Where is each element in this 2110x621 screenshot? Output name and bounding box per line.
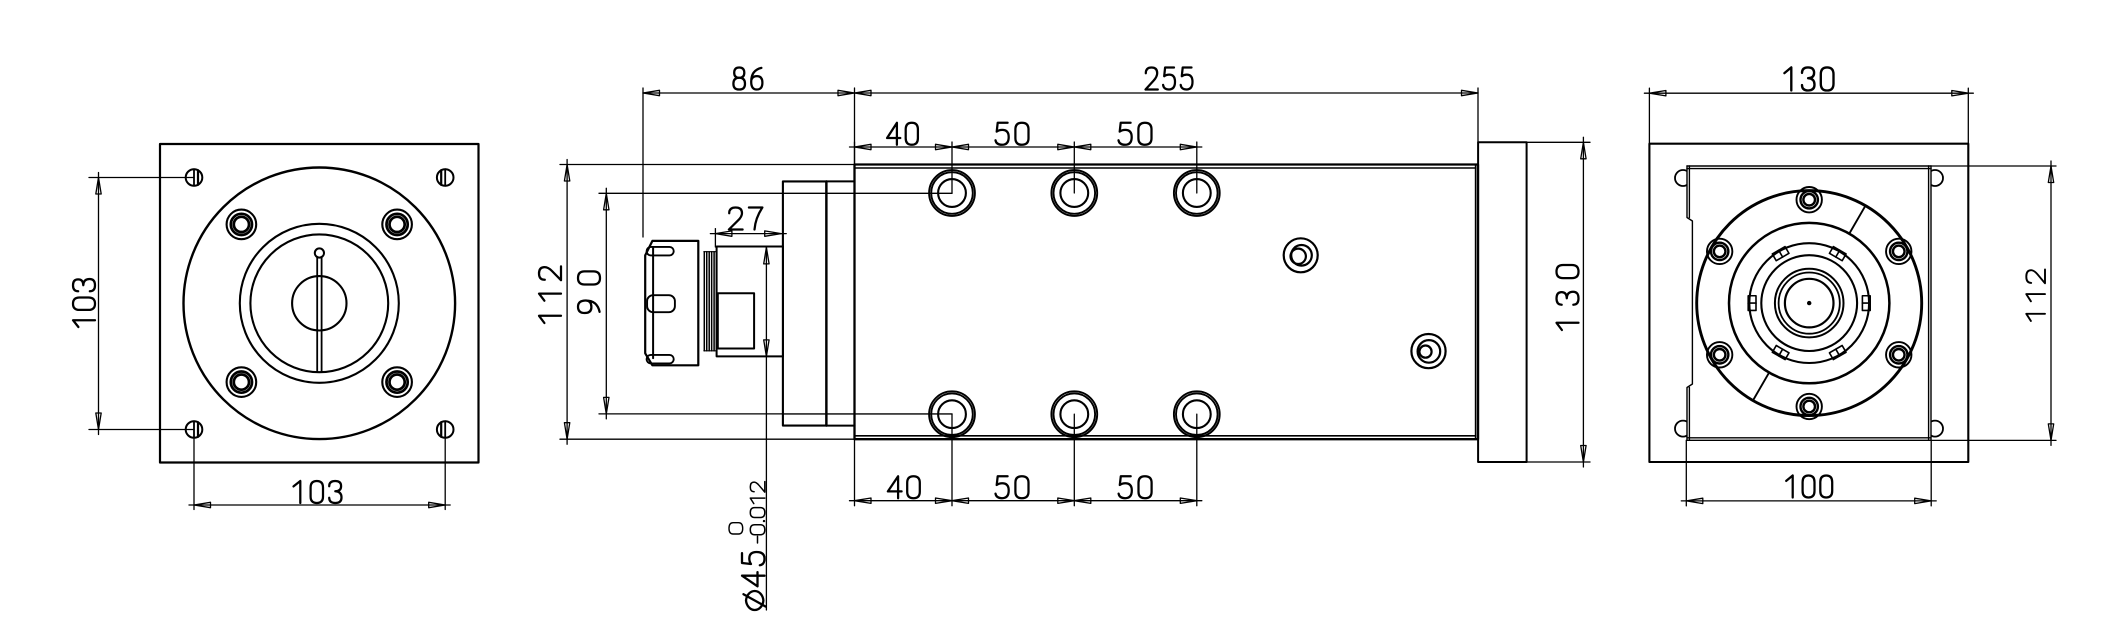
view1 recess ring outer circle xyxy=(240,224,399,383)
dim 130 right extension lines xyxy=(1527,142,1590,462)
view2 ER nut middle slot xyxy=(647,295,675,312)
view1 square flange plate outline xyxy=(160,144,479,463)
view2 side hole lower xyxy=(1411,334,1445,368)
dim O45 arrows xyxy=(764,247,769,264)
dim 90 arrows xyxy=(604,193,609,210)
view2 counterbore hole at 1196.8,414.2 xyxy=(1174,391,1220,437)
dim 255 dimension line xyxy=(855,92,1479,94)
dim top 50b label xyxy=(1119,123,1152,145)
view1 corner hole at 194,177.5 xyxy=(186,169,203,186)
dim 103 left arrows xyxy=(96,178,101,195)
view2 counterbore hole at 1074.3,193 xyxy=(1051,170,1097,216)
dim 103 bottom arrows xyxy=(194,502,211,507)
dim 112 left extension lines xyxy=(560,165,855,440)
view2 collar (O45 section) xyxy=(717,247,783,357)
view3 locknut slot pair at 180 deg xyxy=(1748,296,1756,311)
view2 counterbore hole at 952,414.2 xyxy=(929,391,975,437)
view3 screw at 90 deg xyxy=(1797,187,1822,212)
dim top 50b arrows xyxy=(1074,144,1091,149)
dim 100 dimension line xyxy=(1681,500,1936,502)
dim bottom 40-50-50 extension lines xyxy=(855,414,1197,506)
dim 103 left dimension line xyxy=(98,173,100,435)
view2 body inner bottom line xyxy=(855,435,1476,437)
dim O45 dimension line xyxy=(765,247,767,610)
view3 locknut slot pair at 60 deg xyxy=(1829,247,1846,261)
dim 86 arrows xyxy=(643,90,660,95)
dim 86 label xyxy=(733,68,762,90)
dim 100 label xyxy=(1786,476,1832,498)
view3 inner plate white fill xyxy=(1687,166,1931,440)
view3 locknut slot pair at 300 deg xyxy=(1829,345,1846,359)
view3 locknut slot pair at 0 deg xyxy=(1862,296,1870,311)
view1 screw head at 397.1,224.4 xyxy=(382,210,412,240)
dim 112 right label xyxy=(2026,270,2045,322)
view2 spindle thread hatch xyxy=(704,252,717,351)
view2 ER nut face line xyxy=(652,248,654,358)
dim 90 dimension line xyxy=(605,188,607,419)
dim top 40 arrows xyxy=(855,144,872,149)
dim O45 label tol lower xyxy=(750,482,765,543)
dim 130 top label xyxy=(1784,67,1833,90)
view2 body inner top line xyxy=(855,167,1476,169)
view2 counterbore hole at 1074.3,414.2 xyxy=(1051,391,1097,437)
view2 plate inner bottom line / hole ext xyxy=(783,413,952,415)
view3 corner relief circle at 1683,428.6 xyxy=(1675,421,1691,437)
dim 103 bottom extension lines xyxy=(194,438,445,510)
dim bottom 40 arrows xyxy=(855,498,872,503)
view1 large bolt circle / pilot circle xyxy=(183,167,455,439)
dim bottom 50a label xyxy=(996,476,1029,498)
view3 bearing housing second circle xyxy=(1729,223,1889,383)
view2 ER nut body outline xyxy=(645,241,698,365)
dim 27 extension line xyxy=(714,229,716,247)
view3 corner relief circle at 1935,178 xyxy=(1927,170,1943,186)
view1 corner hole at 445.2,429.5 xyxy=(437,421,454,438)
dim 130 right arrows xyxy=(1581,142,1586,159)
view3 bearing housing outer circle xyxy=(1697,191,1922,416)
view3 screw at 30 deg xyxy=(1886,239,1911,264)
view3 locknut slot pair at 120 deg xyxy=(1772,247,1789,261)
view2 counterbore hole at 1196.8,193 xyxy=(1174,170,1220,216)
dim 255 label xyxy=(1146,68,1193,90)
dim O45 label tol upper xyxy=(729,523,743,534)
dim top 40-50-50 extension lines xyxy=(855,142,1197,193)
view1 center bore circle xyxy=(292,276,346,330)
view1 keyway small circle xyxy=(315,248,324,257)
view2 ER nut top slot xyxy=(647,247,674,256)
view3 bearing circle xyxy=(1761,255,1857,351)
dim 112 right arrows xyxy=(2048,166,2053,183)
view3 center dot xyxy=(1807,301,1811,305)
view1 corner hole at 445.2,177.5 xyxy=(437,169,454,186)
dim 103 left label xyxy=(73,279,95,327)
view2 ER nut bottom slot xyxy=(647,355,674,364)
dim bottom 50b label xyxy=(1119,476,1152,498)
dim 90 extension lines xyxy=(599,193,783,414)
dim 27 arrows xyxy=(715,231,732,236)
view2 collar inner step rect xyxy=(718,293,754,348)
view2 front plate right edge thick xyxy=(825,181,827,425)
dim 103 left extension lines xyxy=(89,178,194,430)
dim top 50a arrows xyxy=(952,144,969,149)
view3 retainer circle with tabs xyxy=(1749,243,1869,363)
dim 255 arrows xyxy=(855,90,872,95)
dim 130 top arrows xyxy=(1649,91,1666,96)
view2 counterbore hole at 952,193 xyxy=(929,170,975,216)
view1 screw head at 241.4,382.1 xyxy=(227,367,257,397)
dim 27 label xyxy=(729,208,763,230)
view3 radial split line lower left xyxy=(1753,373,1769,401)
dim 255 extension line right xyxy=(1477,88,1479,142)
view2 plate inner top line / hole ext xyxy=(783,192,952,194)
view1 screw head at 241.4,224.4 xyxy=(227,210,257,240)
dim 100 arrows xyxy=(1686,498,1703,503)
dim top 50a label xyxy=(996,123,1029,145)
dim 130 right label xyxy=(1557,265,1579,330)
view1 recess ring inner circle xyxy=(250,234,388,372)
dim 112 left label xyxy=(539,266,561,323)
view3 inner circle A2 xyxy=(1779,273,1840,334)
dim 130 top extension lines xyxy=(1649,88,1968,144)
dim 130 right dimension line xyxy=(1582,137,1584,467)
dim 90 label xyxy=(578,271,600,313)
view3 inner plate left edge with notches xyxy=(1687,166,1692,440)
view3 screw at 150 deg xyxy=(1707,239,1732,264)
dim bottom 50b arrows xyxy=(1074,498,1091,503)
view2 main body outline xyxy=(855,165,1479,440)
dim top 40-50-50 dimension line xyxy=(850,146,1202,148)
dim bottom 40-50-50 dimension line xyxy=(850,500,1202,502)
dim 112 left dimension line xyxy=(566,160,568,445)
dim 103 bottom dimension line xyxy=(189,504,450,506)
view3 inner plate bottom edges xyxy=(1687,438,1931,441)
dim 86 extension lines xyxy=(643,88,855,237)
dim 112 right extension lines xyxy=(1931,166,2056,440)
dim 130 top dimension line xyxy=(1644,92,1973,94)
dim 112 left arrows xyxy=(564,165,569,182)
view2 right flange outline xyxy=(1478,142,1527,462)
view3 radial split line upper right xyxy=(1849,206,1865,234)
dim 100 extension lines xyxy=(1686,440,1931,506)
view3 screw at 210 deg xyxy=(1707,342,1732,367)
view2 side hole upper xyxy=(1284,238,1318,272)
view2 front plate top line ext xyxy=(826,180,854,182)
view1 screw head at 397.1,382.1 xyxy=(382,367,412,397)
dim 103 bottom label xyxy=(294,481,342,503)
dim 112 right dimension line xyxy=(2050,161,2052,445)
dim 86 dimension line xyxy=(643,92,855,94)
view3 inner plate right edges xyxy=(1929,166,1931,440)
view3 corner relief circle at 1683,178 xyxy=(1675,170,1691,186)
view3 inner circle A xyxy=(1775,269,1844,338)
view3 screw at 330 deg xyxy=(1886,342,1911,367)
view3 screw at 270 deg xyxy=(1797,394,1822,419)
view2 body inner right line xyxy=(1475,165,1477,440)
view2 front plate bottom line ext xyxy=(826,425,854,427)
view3 locknut slot pair at 240 deg xyxy=(1772,345,1789,359)
view1 keyway slot lines xyxy=(317,257,321,372)
dim bottom 40 label xyxy=(888,476,920,498)
view3 corner relief circle at 1935,428.6 xyxy=(1927,421,1943,437)
dim bottom 50a arrows xyxy=(952,498,969,503)
view3 inner circle B xyxy=(1785,279,1834,328)
view2 front plate outline xyxy=(783,181,827,425)
view3 inner plate top edges xyxy=(1687,166,1931,169)
view3 outer square outline xyxy=(1649,144,1968,462)
dim O45 label main xyxy=(742,552,766,610)
dim 27 dimension line xyxy=(710,233,786,235)
dim top 40 label xyxy=(887,123,918,145)
view1 corner hole at 194,429.5 xyxy=(186,421,203,438)
